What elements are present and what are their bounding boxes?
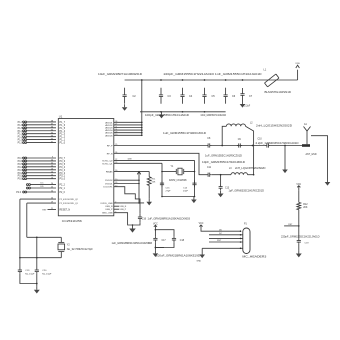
capacitor C5	[202, 88, 215, 104]
svg-text:2nH_LQG15HS2N2S02D: 2nH_LQG15HS2N2S02D	[235, 167, 266, 170]
wire USB_N stub	[105, 206, 127, 208]
svg-text:10uF_GRM21BR71A106KE51D: 10uF_GRM21BR71A106KE51D	[98, 73, 142, 76]
svg-text:USB_N: USB_N	[105, 206, 113, 208]
svg-text:DD: DD	[219, 229, 223, 231]
svg-text:DC: DC	[219, 233, 223, 235]
capacitor C17	[149, 236, 167, 244]
power VDD symbol top right	[295, 63, 300, 68]
wire P2_0	[16, 191, 65, 194]
capacitor C18	[172, 236, 185, 242]
wire P2_1 DD stub	[27, 186, 66, 190]
inductor L1	[264, 69, 279, 87]
svg-text:DVDD1: DVDD1	[105, 184, 113, 186]
capacitor C2	[123, 88, 137, 104]
svg-text:USB_P: USB_P	[120, 209, 127, 211]
label MC_HEADER	[242, 256, 267, 259]
svg-text:AVDD5: AVDD5	[105, 132, 113, 135]
svg-text:32M: 32M	[128, 158, 132, 160]
svg-text:RBIAS: RBIAS	[106, 170, 113, 173]
wire VDD top rail	[125, 79, 298, 81]
ground for crystal circuit	[191, 197, 197, 204]
ground at header	[197, 252, 206, 263]
svg-text:RF_N: RF_N	[107, 153, 113, 155]
wire antenna to right ground	[311, 136, 328, 179]
wire rail to VDD symbol	[297, 70, 299, 80]
wire RF_P from U1	[107, 144, 206, 147]
inductor L2 loop	[222, 124, 253, 175]
value text TBD_GRM1555C1H	[163, 132, 206, 135]
crystal Y2 32.768kHz	[58, 237, 65, 257]
capacitor C20	[35, 237, 52, 275]
value text 220pF_GRM1555C1H221JA01D 1nF	[164, 73, 262, 76]
svg-text:P0_0: P0_0	[60, 178, 66, 181]
svg-text:19: 19	[51, 202, 53, 204]
svg-text:56K: 56K	[152, 182, 156, 184]
wire RBIAS	[106, 170, 149, 173]
antenna feed pad	[302, 144, 310, 147]
svg-text:10: 10	[115, 179, 117, 181]
svg-text:25: 25	[115, 144, 117, 146]
capacitor C15	[160, 181, 171, 193]
value text 100nF_GRM155R71C104KA01D	[201, 114, 227, 117]
capacitor C4	[180, 88, 192, 104]
svg-text:20: 20	[51, 198, 53, 200]
value text 32MHz	[169, 179, 187, 182]
wire C21 to ground	[298, 244, 300, 251]
capacitor C14	[183, 181, 197, 193]
svg-text:P2_0: P2_0	[60, 192, 66, 194]
wire block to right	[155, 247, 164, 249]
capacitor C10 series	[256, 139, 299, 148]
svg-text:AVDD2: AVDD2	[105, 124, 113, 127]
svg-text:C10: C10	[258, 139, 263, 141]
ground for C2	[122, 104, 128, 111]
wire DVDD1	[105, 182, 140, 185]
svg-text:1uF_GRM188R60J105KA01D/0603: 1uF_GRM188R60J105KA01D/0603	[112, 242, 153, 245]
svg-text:2: 2	[115, 202, 116, 204]
svg-text:P2.0: P2.0	[16, 192, 21, 194]
wire P2_3 vertical	[26, 203, 28, 237]
wire RST tick	[284, 224, 299, 226]
wire XOSC_Q1 down	[161, 163, 163, 196]
svg-text:P1_0: P1_0	[60, 142, 66, 145]
svg-text:XOSC_Q1: XOSC_Q1	[102, 163, 113, 165]
svg-text:VCC: VCC	[199, 223, 204, 225]
wire R12 to node	[298, 210, 300, 239]
svg-text:No_32.768kHz/12.5pF: No_32.768kHz/12.5pF	[67, 249, 94, 251]
wire XOSC_Q2 down	[194, 160, 196, 196]
wire C16 to ground	[133, 222, 141, 225]
svg-text:RST: RST	[288, 224, 293, 226]
resistor R12 20K	[297, 202, 308, 209]
svg-text:XOSC_Q2: XOSC_Q2	[102, 160, 113, 162]
svg-text:1pF_GRM0335C1H1R0CZ01D: 1pF_GRM0335C1H1R0CZ01D	[229, 190, 265, 193]
wire P2_4 XOSC32K_Q2	[20, 198, 79, 201]
junction dots ground rail	[160, 111, 205, 113]
wire RF_N middle	[212, 174, 231, 176]
crystal Y1 32MHz	[161, 168, 195, 175]
wire RF_N from U1	[107, 152, 207, 175]
svg-text:C17: C17	[162, 240, 167, 242]
wire GND_USB to ground	[102, 211, 133, 225]
svg-text:ANT_GND: ANT_GND	[306, 153, 317, 156]
svg-text:RESET_N: RESET_N	[60, 210, 71, 212]
label Y1	[171, 166, 175, 168]
svg-text:100pF_GRM1555C1H101JA01D: 100pF_GRM1555C1H101JA01D	[145, 114, 189, 117]
wire header pin1 VCC	[201, 230, 241, 233]
ground drop near antenna	[282, 146, 288, 174]
svg-text:RF_P: RF_P	[107, 146, 113, 148]
svg-text:VCC: VCC	[296, 184, 301, 186]
ground for reset cap	[296, 250, 302, 257]
capacitor C9	[237, 139, 242, 148]
svg-text:39: 39	[115, 182, 117, 184]
svg-text:1uF_GRM1555C1H1R0CZ01D: 1uF_GRM1555C1H1R0CZ01D	[163, 132, 206, 135]
connector P2 header body	[243, 224, 250, 254]
ground below C16	[129, 225, 135, 233]
antenna A1	[304, 123, 311, 144]
svg-text:DC: DC	[41, 183, 45, 185]
capacitor C8	[206, 138, 211, 148]
svg-text:27pF: 27pF	[166, 190, 172, 192]
svg-text:27pF: 27pF	[183, 190, 189, 192]
wire header pin5 GND	[202, 248, 242, 252]
svg-text:26: 26	[115, 152, 117, 154]
wire crystal ground rail	[161, 196, 195, 198]
svg-text:20K: 20K	[303, 206, 308, 209]
svg-text:DVDD_USB: DVDD_USB	[101, 203, 113, 205]
wire DCOUPL staircase to C16	[103, 185, 140, 213]
svg-text:P2_1: P2_1	[60, 188, 66, 190]
svg-text:P2_3/XOSC32K_Q1: P2_3/XOSC32K_Q1	[60, 203, 79, 205]
resistor R11 RBIAS	[147, 171, 156, 198]
value text 220pF reset	[281, 236, 320, 239]
svg-text:USB_P: USB_P	[105, 209, 113, 211]
wire C19 C20 join	[20, 273, 38, 286]
capacitor C13 shunt	[219, 175, 265, 193]
svg-text:No_15pF: No_15pF	[42, 273, 52, 275]
wire XOSC_Q2	[102, 158, 194, 162]
wire P2_2 DC stub	[27, 183, 66, 187]
capacitor C21 reset	[297, 239, 310, 245]
svg-text:RST: RST	[217, 240, 222, 242]
svg-text:DVDD2: DVDD2	[105, 180, 113, 182]
svg-text:32MHz_CX3225SB: 32MHz_CX3225SB	[169, 179, 187, 182]
svg-text:MC_HEADER3: MC_HEADER3	[242, 256, 267, 259]
capacitor C6	[224, 88, 236, 104]
ground for R11	[146, 199, 152, 206]
value text 100uF	[156, 255, 200, 258]
wire Y2 top	[27, 236, 62, 238]
wire header pin4 RST	[209, 240, 243, 243]
wire P2_3 XOSC32K_Q1	[27, 202, 79, 205]
power VCC mid	[153, 223, 158, 229]
svg-text:AVDD3: AVDD3	[105, 127, 113, 130]
svg-text:23: 23	[115, 162, 117, 164]
wire DVDD_USB	[101, 184, 145, 205]
connector bank P1.7-P1.0 wires and pins	[18, 121, 66, 145]
svg-text:1uF_GRM1555C1H1R0CZ01D: 1uF_GRM1555C1H1R0CZ01D	[205, 155, 242, 158]
wire USB_P stub	[105, 209, 126, 211]
value text 1uF 0603	[112, 242, 153, 245]
net VDD value text 10uF_GRM21BR71A106KE51D	[98, 73, 142, 76]
svg-text:AVDD4: AVDD4	[105, 129, 113, 132]
wire RESET_N stub with RST label	[42, 208, 70, 211]
svg-text:U1: U1	[59, 114, 63, 118]
svg-text:30: 30	[115, 170, 117, 172]
svg-text:220pF_GRM1555C1H221JA01D: 220pF_GRM1555C1H221JA01D	[281, 236, 320, 239]
power VCC for reset	[296, 184, 301, 190]
capacitor C11	[206, 167, 211, 177]
wire C10 to antenna pad	[270, 145, 302, 147]
svg-text:VCC: VCC	[153, 223, 158, 225]
svg-text:GND: GND	[197, 260, 202, 262]
svg-text:RST: RST	[42, 209, 47, 211]
wire DVDD2	[105, 179, 140, 182]
junction dots on VDD rail	[141, 79, 243, 81]
wire XOSC_Q1	[102, 162, 162, 165]
svg-text:C16: C16	[142, 218, 147, 220]
svg-text:DD: DD	[41, 186, 45, 188]
value text 10pF_GRM row	[202, 161, 245, 164]
svg-text:C18: C18	[180, 240, 185, 242]
svg-text:No_15pF: No_15pF	[25, 273, 35, 275]
ground bottom left	[34, 287, 40, 294]
wire RF_P middle	[212, 145, 266, 147]
svg-text:GND_USB: GND_USB	[102, 213, 113, 215]
value text 100pF_GRM1555C1H101JA01D	[145, 114, 189, 117]
capacitor C3	[159, 88, 171, 104]
label ANT_GND	[306, 153, 317, 156]
wire P2_4 vertical	[19, 199, 21, 258]
wire VCC block	[155, 229, 174, 236]
label Y2	[67, 244, 94, 251]
svg-text:220pF_GRM1555C1H221JA01D 1nF_G: 220pF_GRM1555C1H221JA01D 1nF_GRM1555C1H1…	[164, 73, 262, 76]
svg-text:2nH_LQG15HS2N2S02D: 2nH_LQG15HS2N2S02D	[256, 125, 292, 128]
inductor L3	[231, 173, 254, 176]
svg-text:22: 22	[115, 159, 117, 161]
svg-text:24: 24	[51, 191, 53, 193]
svg-text:100uF_GRM21BR61A106KE19D: 100uF_GRM21BR61A106KE19D	[156, 255, 200, 258]
wire Y2 bottom	[19, 257, 61, 259]
value text 1uF_GRM row	[205, 155, 242, 158]
ground for cap rail	[159, 112, 165, 119]
svg-text:10pF_GRM1555C1H100JZ01D: 10pF_GRM1555C1H100JZ01D	[202, 161, 245, 164]
svg-text:CC2531F256: CC2531F256	[62, 219, 83, 223]
svg-text:VDD: VDD	[295, 63, 300, 65]
op-amp U1 MCU CC2531 body	[58, 114, 114, 216]
label L2	[250, 123, 292, 128]
label CC2531F256	[62, 219, 83, 223]
wire C17 C18 bottom	[155, 242, 174, 250]
wire header pin3 DC	[209, 233, 243, 239]
svg-text:DCOUPL: DCOUPL	[103, 187, 113, 189]
wire AVDD bus vertical	[141, 80, 143, 135]
ground for C7	[240, 101, 251, 108]
svg-text:2.2pF_GRM0335C1H2R2CA01D: 2.2pF_GRM0335C1H2R2CA01D	[256, 142, 299, 145]
svg-text:BLM15HG102SN1D: BLM15HG102SN1D	[265, 91, 292, 94]
power VDD arrow for DVDD pins	[137, 172, 141, 184]
connector bank P0.7-P0.0 wires and pins	[18, 157, 66, 181]
capacitor C7	[240, 88, 252, 101]
svg-text:USB_N: USB_N	[120, 206, 127, 208]
wire ground rail below caps	[140, 111, 226, 113]
svg-text:3: 3	[115, 211, 116, 213]
svg-text:P2_4/XOSC32K_Q2: P2_4/XOSC32K_Q2	[60, 199, 79, 201]
wire VCC to R12	[298, 190, 300, 202]
ground right of antenna	[325, 179, 331, 186]
wires AVDD1-AVDD6 to bus	[105, 121, 142, 137]
svg-text:21: 21	[51, 208, 53, 210]
power VCC at header	[199, 223, 204, 229]
value text BLM15HG102SN1D	[265, 91, 292, 94]
svg-text:25: 25	[51, 187, 53, 189]
capacitor C19	[18, 258, 35, 276]
svg-text:AVDD6: AVDD6	[105, 134, 113, 137]
wire header pin2 DD	[209, 229, 243, 235]
svg-text:1uF_GRM188R61A105KA61D/0603: 1uF_GRM188R61A105KA61D/0603	[148, 217, 191, 220]
ground below C13	[218, 190, 224, 197]
ground below C17 C18	[153, 250, 159, 257]
svg-text:26: 26	[51, 183, 53, 185]
capacitor C16	[138, 213, 191, 222]
svg-text:100nF_GRM155R71C104KA01D: 100nF_GRM155R71C104KA01D	[201, 114, 227, 117]
svg-text:10: 10	[115, 134, 117, 136]
svg-text:AVDD1: AVDD1	[105, 121, 113, 124]
svg-text:P2_2: P2_2	[60, 185, 66, 187]
label L3	[229, 167, 266, 170]
svg-text:2.2uF: 2.2uF	[244, 106, 250, 108]
